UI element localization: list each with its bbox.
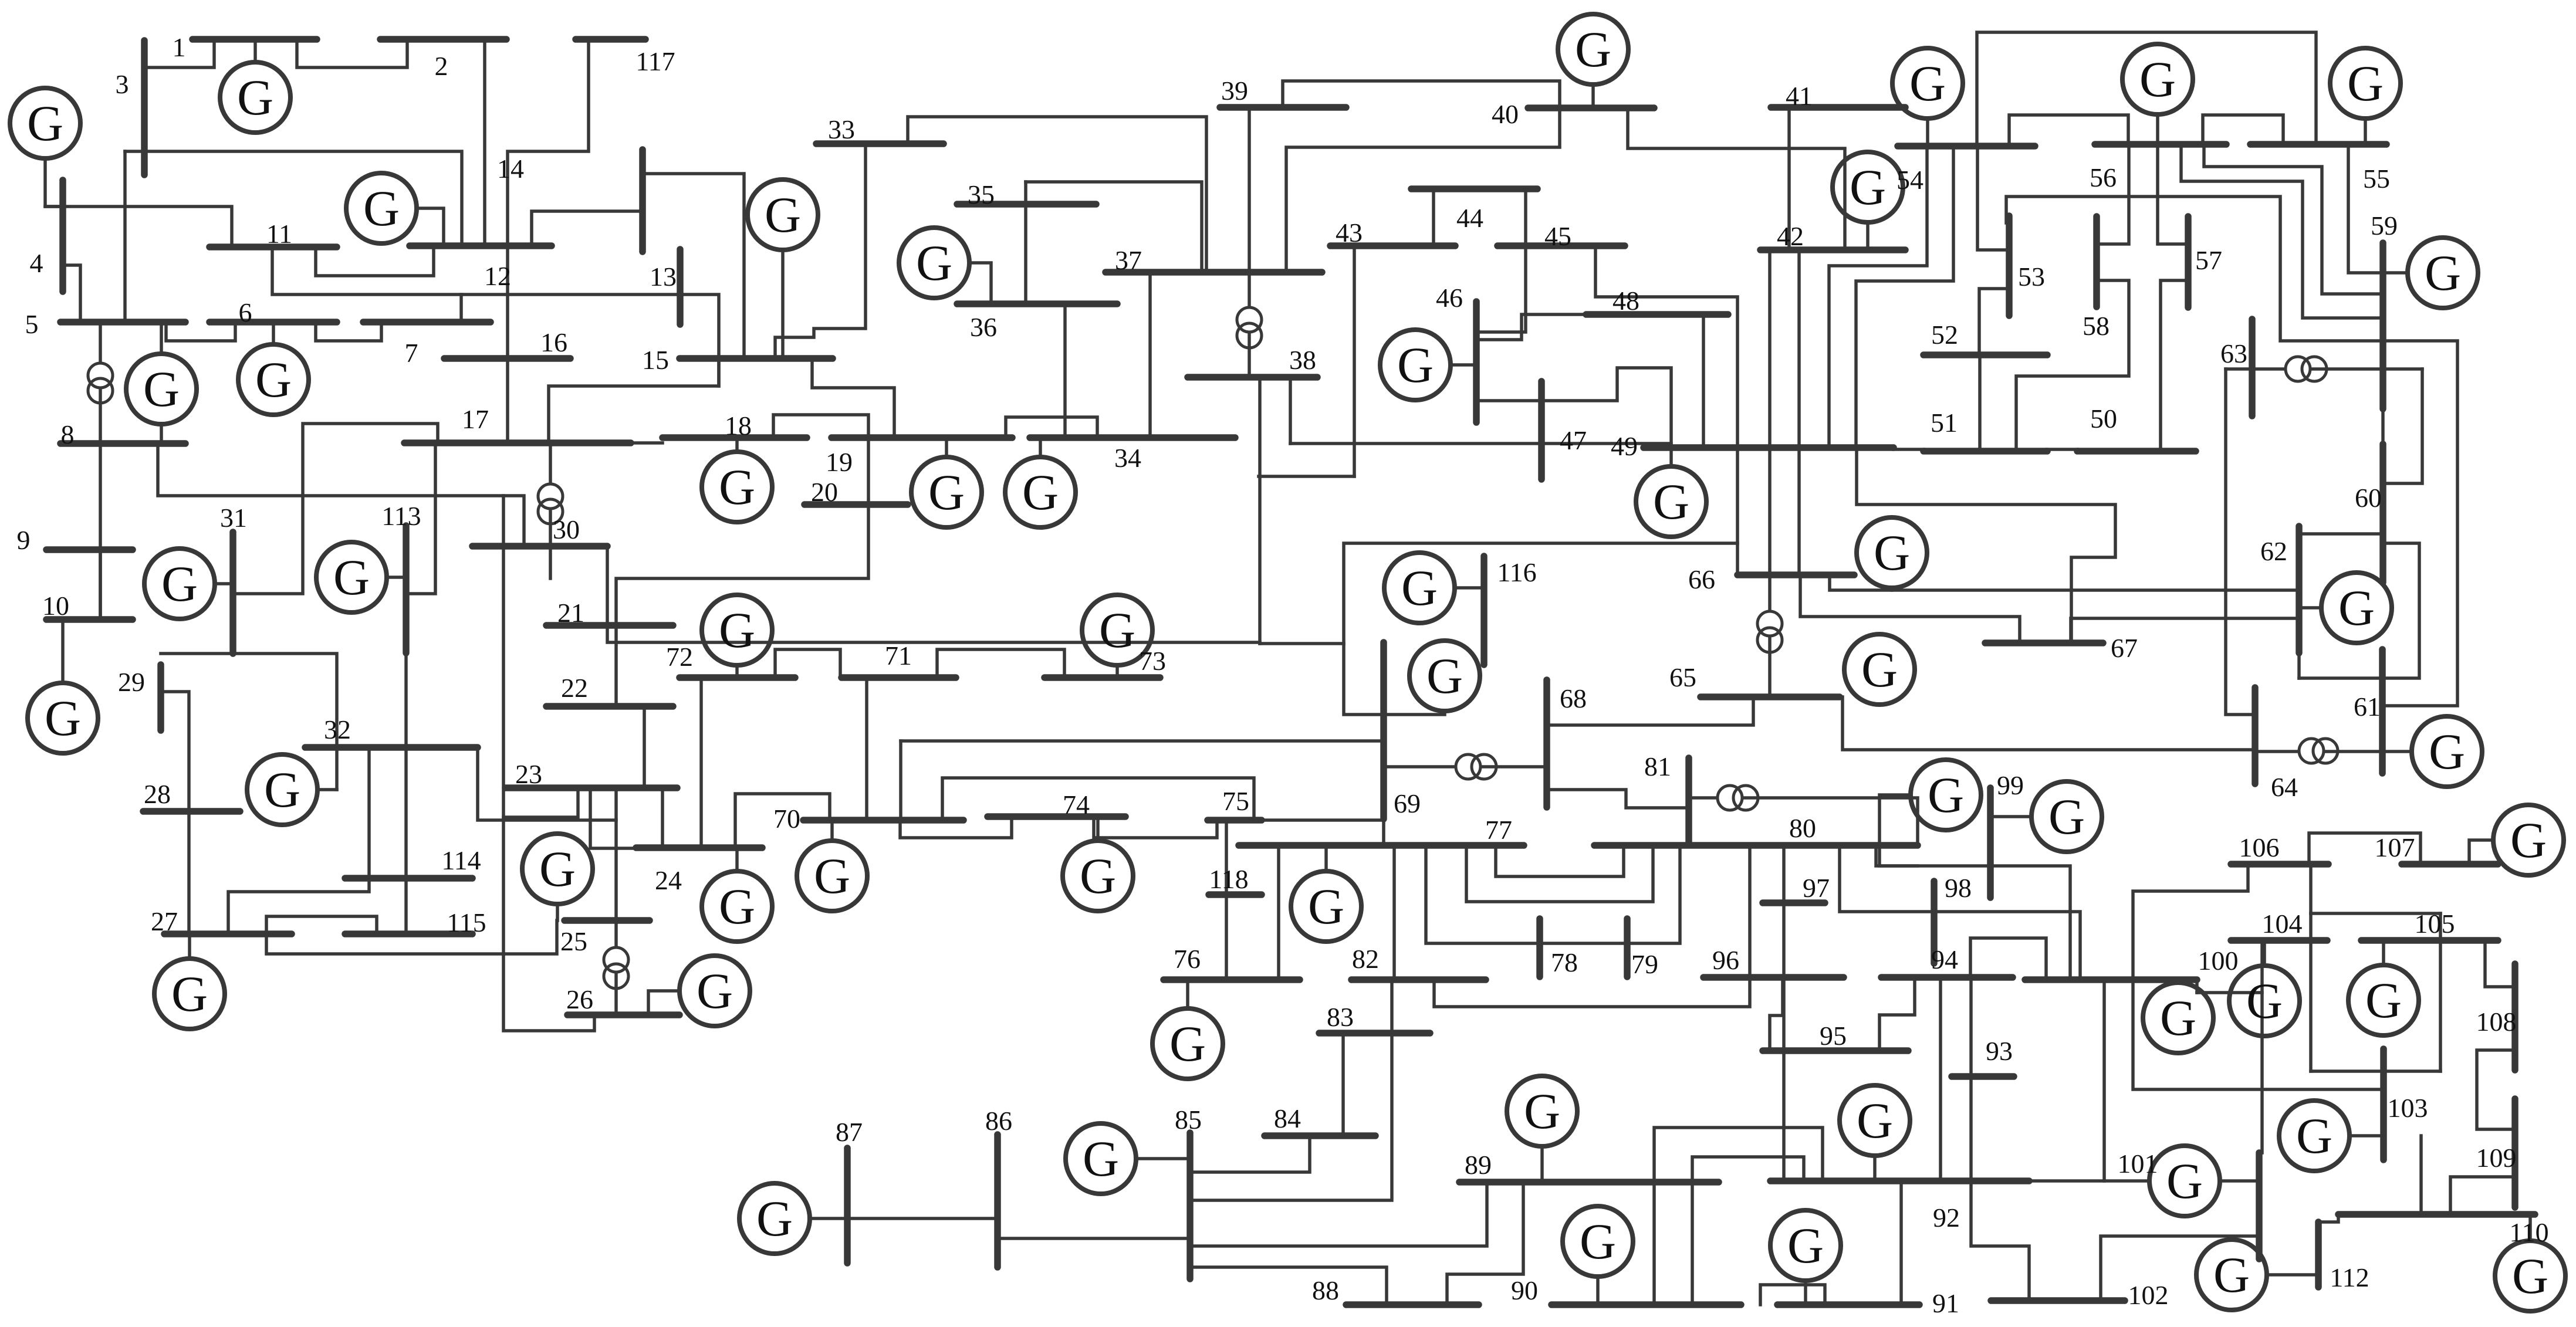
wire generator 27 lead	[188, 934, 191, 959]
svg-text:96: 96	[1712, 945, 1739, 975]
generator G at bus 66	[1857, 517, 1927, 588]
svg-text:G: G	[363, 180, 400, 236]
wire generator 92 lead	[1873, 1156, 1877, 1181]
bus 18	[662, 434, 807, 441]
wire 92-93	[1969, 1077, 1973, 1181]
wire 23-24b	[590, 788, 644, 848]
svg-text:G: G	[1426, 648, 1463, 704]
wire 1-2	[297, 39, 407, 67]
svg-text:109: 109	[2476, 1143, 2517, 1173]
svg-text:53: 53	[2018, 262, 2045, 292]
bus 76	[1164, 976, 1300, 983]
wire 69-70l	[899, 741, 902, 820]
svg-text:68: 68	[1560, 683, 1587, 713]
bus 97	[1763, 899, 1825, 906]
svg-text:G: G	[2347, 55, 2384, 111]
wire generator 40 lead	[1591, 84, 1595, 108]
wire 103-110	[2419, 1136, 2423, 1214]
svg-text:G: G	[2160, 990, 2196, 1046]
wire 53-54	[1977, 146, 2009, 250]
svg-text:G: G	[719, 602, 755, 658]
bus 48	[1586, 311, 1728, 318]
bus 106	[2231, 861, 2328, 868]
bus 79	[1624, 919, 1631, 977]
wire 3-5	[123, 151, 127, 322]
transformer symbol 3	[1237, 307, 1262, 348]
wire 54-56u	[2009, 115, 2128, 146]
svg-text:26: 26	[566, 984, 593, 1014]
svg-text:54: 54	[1896, 165, 1923, 195]
svg-text:52: 52	[1931, 320, 1958, 350]
wire 80-98	[1840, 845, 1934, 912]
svg-text:32: 32	[324, 715, 351, 744]
svg-text:89: 89	[1465, 1150, 1492, 1180]
generator G at bus 76	[1152, 1008, 1223, 1079]
bus 77	[1239, 842, 1524, 849]
bus 71	[841, 674, 956, 681]
svg-text:G: G	[1169, 1015, 1206, 1072]
bus 45	[1497, 242, 1625, 249]
generator G at bus 25	[522, 834, 593, 904]
wire 49-50st	[1857, 448, 2115, 643]
wire 17-31	[233, 424, 438, 594]
wire 11-12u	[316, 246, 434, 276]
generator G at bus 73	[1082, 595, 1152, 665]
wire 4-5	[63, 265, 80, 322]
generator G at bus 24	[702, 871, 772, 942]
svg-text:37: 37	[1115, 245, 1142, 275]
wire 68-69x	[1384, 765, 1547, 769]
svg-text:65: 65	[1669, 662, 1696, 692]
wire generator 62 lead	[2299, 606, 2321, 610]
wire 30-17x	[549, 443, 552, 546]
wire 104-105u	[2309, 913, 2313, 1071]
bus 115	[345, 930, 472, 937]
svg-text:G: G	[333, 549, 370, 605]
svg-text:G: G	[2048, 788, 2085, 845]
wire 55-56u	[2203, 115, 2283, 144]
wire 51-52	[1978, 355, 1982, 451]
wire 11-13	[272, 247, 680, 294]
wire 37-39	[1248, 107, 1251, 272]
wire generator 113 lead	[387, 576, 406, 579]
wire 46-47	[1476, 399, 1541, 402]
wire 76-77	[1277, 845, 1280, 980]
wire 89-92b	[1692, 1157, 1804, 1182]
generator G at bus 27	[154, 959, 225, 1029]
wire 29-31	[161, 652, 234, 655]
svg-text:115: 115	[447, 908, 486, 937]
wire 37-40	[1286, 108, 1560, 272]
svg-text:3: 3	[116, 69, 129, 99]
svg-text:24: 24	[655, 865, 682, 895]
wire 51-50l	[2047, 448, 2077, 451]
bus 102	[1991, 1297, 2125, 1304]
wire 92-100	[2029, 980, 2104, 1181]
svg-text:1: 1	[173, 32, 186, 62]
wire generator 49 lead	[1669, 448, 1673, 466]
svg-text:20: 20	[811, 477, 838, 507]
wire 53-60st	[2006, 197, 2457, 706]
transformer symbol 1	[88, 363, 113, 403]
bus 55	[2250, 141, 2386, 148]
wire 56-57	[2158, 144, 2188, 244]
transformer symbol 4	[604, 947, 628, 989]
generator G at bus 12	[346, 173, 417, 243]
wire 31-32	[234, 654, 337, 747]
wire 30-38	[607, 546, 1260, 642]
wire 26-30	[503, 496, 594, 1031]
bus 54	[1898, 143, 2035, 150]
bus 91	[1777, 1301, 1919, 1308]
wire 15-19	[812, 358, 894, 438]
svg-text:23: 23	[515, 759, 542, 789]
wire 23-24	[661, 788, 664, 848]
bus 99	[1987, 788, 1994, 898]
svg-text:87: 87	[836, 1117, 863, 1147]
wire 33-37	[908, 117, 1206, 272]
wire 61-62v	[2297, 653, 2301, 678]
svg-text:G: G	[1580, 1213, 1616, 1270]
bus 107	[2402, 861, 2498, 868]
svg-text:51: 51	[1931, 408, 1958, 438]
generator G at bus 56	[2122, 44, 2193, 114]
wire 108-109	[2477, 1050, 2515, 1129]
generator G at bus 112	[2196, 1240, 2267, 1310]
svg-text:9: 9	[17, 525, 31, 555]
generator G at bus 10	[28, 683, 98, 753]
wire 91-92	[1899, 1181, 1903, 1305]
wire generator 42 lead	[1866, 222, 1870, 250]
generator G at bus 1	[220, 62, 290, 133]
wire 16-17	[506, 358, 509, 443]
bus 60	[2379, 444, 2386, 583]
bus 93	[1952, 1073, 2014, 1080]
svg-text:64: 64	[2271, 772, 2298, 802]
svg-text:118: 118	[1209, 864, 1248, 894]
bus 9	[46, 546, 133, 553]
svg-text:62: 62	[2260, 536, 2287, 566]
bus 70	[803, 817, 964, 824]
generator G at bus 92	[1840, 1085, 1910, 1156]
bus 87	[844, 1148, 851, 1263]
wire 48-49	[1702, 314, 1705, 448]
bus 100	[2025, 976, 2197, 983]
bus 80	[1594, 842, 1918, 849]
generator G at bus 85	[1066, 1123, 1136, 1194]
wire generator 74 lead	[1096, 817, 1100, 841]
generator G at bus 91	[1770, 1210, 1841, 1281]
bus 96	[1703, 974, 1844, 981]
wire 100-103	[2133, 980, 2384, 1089]
wire 24-70	[735, 794, 830, 848]
wire 17-18	[631, 441, 662, 445]
svg-text:G: G	[2139, 51, 2176, 107]
generator G at bus 105	[2348, 965, 2419, 1035]
wire 59-60l	[2383, 369, 2422, 483]
wire generator 56 lead	[2156, 114, 2159, 144]
wire 60-61	[2299, 543, 2419, 678]
wire 49-51l	[1894, 448, 1923, 451]
svg-text:G: G	[1524, 1083, 1560, 1139]
wire 38-d2	[1289, 377, 1292, 444]
svg-text:5: 5	[25, 309, 39, 339]
bus 73	[1044, 674, 1160, 681]
svg-text:50: 50	[2090, 404, 2117, 434]
wire generator 65 lead	[1844, 668, 1845, 671]
generator G at bus 99b	[2031, 781, 2102, 852]
svg-text:G: G	[1850, 159, 1886, 215]
bus 104	[2231, 937, 2327, 944]
wire generator 55 lead	[2364, 119, 2367, 144]
bus 57	[2185, 216, 2192, 307]
generator G at bus 103	[2279, 1101, 2349, 1171]
bus 3	[141, 40, 148, 175]
bus 108	[2511, 964, 2518, 1070]
svg-text:13: 13	[650, 262, 677, 292]
bus 59	[2379, 243, 2386, 409]
bus 63	[2249, 319, 2256, 416]
svg-text:G: G	[2213, 1247, 2250, 1303]
wire 20-21	[616, 505, 868, 625]
bus 103	[2380, 1049, 2387, 1160]
generator G at bus 42	[1833, 152, 1903, 222]
wire 71-73u	[937, 649, 1064, 678]
svg-text:117: 117	[635, 46, 675, 76]
svg-text:116: 116	[1497, 557, 1536, 587]
bus 84	[1265, 1132, 1375, 1139]
wire generator 69 lead	[1384, 711, 1445, 715]
wire 5-6	[166, 322, 235, 341]
wire 56-59a	[2204, 144, 2383, 294]
wire 101-102	[2101, 1236, 2259, 1301]
wire 80-99	[1876, 845, 1990, 866]
bus 30	[472, 543, 607, 550]
svg-text:69: 69	[1394, 788, 1421, 818]
svg-text:G: G	[765, 187, 801, 243]
bus 24	[636, 844, 762, 851]
wire 7-12	[459, 294, 463, 322]
wire generator 15 lead	[781, 250, 785, 358]
bus 66	[1737, 571, 1854, 578]
wire 17-113	[407, 443, 435, 594]
bus 51	[1923, 448, 2047, 455]
wire 94-95	[1879, 978, 1915, 1051]
svg-text:14: 14	[497, 154, 524, 184]
generator G at bus 99a	[1911, 760, 1981, 830]
wire 23-32	[478, 747, 616, 820]
svg-text:101: 101	[2118, 1149, 2158, 1179]
svg-text:103: 103	[2388, 1093, 2428, 1123]
bus 113	[403, 526, 410, 653]
wire 100-l	[2197, 991, 2262, 994]
svg-text:G: G	[237, 69, 273, 126]
bus 53	[2006, 216, 2013, 316]
wire generator 8 leads	[160, 322, 163, 354]
transformer symbol 8	[1456, 754, 1496, 779]
wire 49-54a	[1829, 146, 1927, 445]
wire 77-80a	[1496, 845, 1624, 876]
bus 117	[576, 36, 645, 43]
bus 85	[1186, 1133, 1194, 1279]
wire 100-106	[2133, 864, 2248, 980]
wire 34-36	[1063, 304, 1067, 438]
svg-text:60: 60	[2355, 483, 2382, 513]
bus 95	[1763, 1047, 1908, 1054]
svg-text:G: G	[1857, 1092, 1893, 1149]
svg-text:49: 49	[1611, 431, 1638, 461]
svg-text:G: G	[255, 351, 292, 408]
svg-text:72: 72	[666, 642, 693, 672]
bus 14	[639, 150, 646, 252]
wire 37-38x	[1248, 272, 1251, 377]
wire generator 73 lead	[1115, 665, 1119, 678]
svg-text:G: G	[1874, 524, 1910, 581]
svg-text:G: G	[916, 235, 952, 291]
bus 56	[2095, 141, 2226, 148]
svg-text:36: 36	[970, 312, 997, 342]
wire 104-105h	[2311, 912, 2440, 915]
generator G at bus 34	[1005, 457, 1076, 527]
bus 46	[1473, 302, 1480, 422]
svg-text:73: 73	[1139, 646, 1166, 676]
wire 43-44	[1432, 189, 1435, 246]
svg-text:102: 102	[2128, 1280, 2169, 1310]
wire v2308	[1353, 246, 1356, 476]
svg-text:85: 85	[1175, 1105, 1202, 1135]
bus 41	[1771, 104, 1905, 111]
wire generator 89 lead	[1540, 1146, 1544, 1182]
svg-text:G: G	[1787, 1217, 1824, 1274]
wire 46-48	[1476, 314, 1586, 340]
svg-text:18: 18	[725, 411, 752, 441]
wire 1-3	[144, 39, 214, 67]
svg-text:105: 105	[2415, 909, 2455, 939]
wire generator 4 lead	[45, 158, 63, 207]
svg-text:G: G	[45, 690, 81, 746]
wire generator 32 lead	[317, 788, 337, 791]
svg-text:G: G	[27, 95, 63, 151]
wire 14-15	[643, 174, 744, 358]
bus 43	[1330, 242, 1455, 249]
wire 94-100u	[1970, 938, 2046, 980]
generator G at bus 77	[1291, 871, 1361, 942]
svg-text:48: 48	[1612, 286, 1639, 316]
generator G at bus 62	[2321, 573, 2392, 643]
svg-text:G: G	[2365, 972, 2402, 1028]
bus 110	[2338, 1211, 2535, 1218]
svg-text:46: 46	[1436, 283, 1463, 313]
wire 70-74u	[900, 817, 1012, 838]
wire generator 6 lead	[272, 322, 275, 344]
svg-text:17: 17	[462, 404, 489, 434]
bus 74	[988, 813, 1125, 820]
wire 84-85	[1190, 1136, 1310, 1172]
svg-text:25: 25	[560, 926, 587, 956]
wire 30-h	[549, 546, 552, 578]
bus 101	[2256, 1153, 2263, 1259]
generator G at bus 4	[10, 88, 80, 158]
bus 32	[305, 744, 478, 751]
svg-text:15: 15	[642, 345, 669, 375]
wire 35-37	[1026, 182, 1202, 272]
bus 118	[1209, 891, 1262, 898]
bus 27	[164, 930, 292, 937]
bus 33	[816, 140, 944, 147]
svg-text:88: 88	[1312, 1275, 1339, 1305]
wire 24-72	[699, 678, 703, 848]
wire 45-46	[1479, 246, 1526, 332]
wire 60-62	[2299, 532, 2383, 536]
wire 59-60j	[2381, 409, 2385, 444]
wire 25-27	[266, 920, 557, 954]
wire 80-96	[1748, 845, 1752, 977]
wire 32-114	[404, 747, 408, 878]
svg-text:G: G	[2166, 1153, 2203, 1209]
wire 54-55	[1977, 32, 2316, 146]
wire 9-wire	[99, 550, 102, 620]
svg-text:56: 56	[2090, 163, 2117, 192]
svg-text:114: 114	[441, 845, 481, 875]
generator G at bus 65	[1844, 634, 1915, 705]
svg-text:21: 21	[557, 598, 584, 628]
svg-text:41: 41	[1786, 81, 1813, 111]
wire 12-14	[532, 211, 643, 246]
svg-text:28: 28	[144, 779, 171, 809]
transformer symbol 2	[538, 484, 563, 524]
svg-text:95: 95	[1820, 1021, 1847, 1051]
bus 52	[1923, 351, 2047, 358]
wire generator 36 lead	[969, 263, 991, 304]
wire generator 70 lead	[830, 820, 834, 841]
bus 92	[1770, 1177, 2029, 1184]
svg-text:112: 112	[2330, 1262, 2369, 1292]
wire 92-102	[1971, 1181, 2029, 1301]
bus 2	[380, 36, 506, 43]
generator G at bus 15	[748, 180, 818, 250]
wire 34-37	[1148, 272, 1152, 438]
wire generator 116 lead	[1455, 586, 1484, 590]
wire 28-29	[161, 692, 189, 811]
wire 89-90b	[1691, 1182, 1694, 1305]
svg-text:91: 91	[1932, 1288, 1959, 1318]
bus 10	[46, 616, 133, 623]
bus 114	[345, 875, 472, 882]
svg-text:108: 108	[2476, 1007, 2517, 1037]
wire generator 1 lead	[253, 39, 257, 62]
wire 104-106	[2309, 864, 2313, 913]
wire 8-30	[158, 444, 524, 546]
wire 5-8x	[99, 322, 102, 444]
wire 65-68	[1547, 697, 1753, 725]
generator G at bus 46	[1380, 330, 1451, 400]
wire 49-54b	[1856, 146, 1953, 445]
wire 75-118	[1225, 820, 1228, 895]
wire 15-17	[549, 358, 719, 443]
wire 69-70	[901, 739, 1384, 743]
bus 72	[680, 674, 795, 681]
svg-text:8: 8	[61, 419, 75, 449]
bus 8	[60, 440, 185, 447]
generator G at bus 54	[1892, 48, 1963, 119]
svg-text:77: 77	[1485, 815, 1512, 845]
svg-text:G: G	[2425, 245, 2461, 301]
svg-text:38: 38	[1289, 345, 1316, 375]
svg-text:G: G	[171, 966, 208, 1022]
wire 118-76	[1225, 895, 1228, 980]
wire generator 25 lead	[556, 904, 559, 920]
svg-text:G: G	[814, 848, 850, 904]
